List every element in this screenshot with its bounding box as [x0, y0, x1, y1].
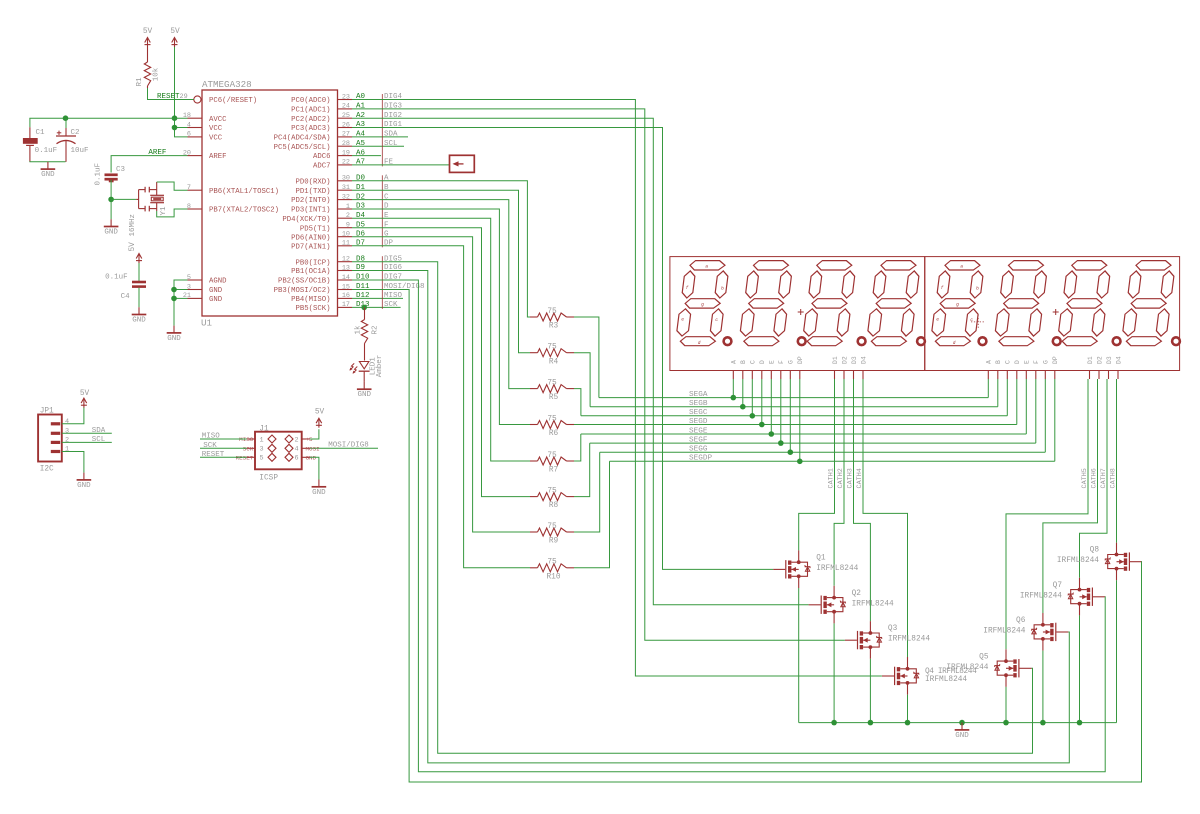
wire net DIG2: U1 A2 to Q2 gate [352, 118, 809, 605]
transistor Q3 IRFML8244 [845, 621, 930, 659]
junction dot GND bus [1003, 720, 1009, 726]
display DIS2 pin D2 stub [1096, 356, 1103, 379]
svg-text:4: 4 [295, 446, 299, 454]
svg-text:PD2(INT0): PD2(INT0) [291, 197, 330, 205]
svg-text:G: G [1043, 360, 1050, 364]
svg-text:75: 75 [547, 452, 557, 460]
U1 pin PD0(RXD) pin 30 / net D0 [295, 175, 389, 187]
wire net SEGD bus row [574, 418, 1017, 426]
svg-text:1k: 1k [355, 325, 363, 335]
svg-text:CATH7: CATH7 [1100, 468, 1108, 488]
display DIS2 digit 2 glyph [994, 261, 1049, 346]
svg-text:SCK: SCK [243, 446, 254, 453]
svg-text:D12: D12 [356, 292, 370, 300]
svg-text:75: 75 [547, 523, 557, 531]
svg-text:AVCC: AVCC [209, 116, 227, 124]
U1 pin PD3(INT1) pin 1 / net D3 [291, 203, 389, 215]
wire net CATH7: DIS2 D3 to Q7 drain [1080, 379, 1109, 578]
svg-text:5V: 5V [315, 409, 325, 417]
display DIS2 digit 3 glyph [1057, 261, 1112, 346]
svg-text:CATH2: CATH2 [837, 468, 845, 488]
svg-text:I2C: I2C [40, 466, 54, 474]
svg-text:PD3(INT1): PD3(INT1) [291, 207, 330, 215]
junction dot GND pin21 [171, 296, 177, 302]
svg-text:A: A [986, 360, 993, 364]
wire display DIS1 pin C to SEGC [751, 379, 753, 416]
wire net CATH2: DIS1 D2 to Q2 drain [834, 379, 845, 586]
U1 pin PD5(T1) pin 9 / net D5 [300, 221, 389, 233]
junction dot SEGDP/DIS1 [797, 459, 803, 465]
svg-text:Q5: Q5 [979, 653, 989, 661]
svg-text:Q7: Q7 [1053, 582, 1063, 590]
U1 pin PC2(ADC2) pin 25 / net A2 [291, 112, 402, 124]
svg-text:25: 25 [342, 112, 350, 120]
crystal Y1 16MHz resonator [129, 182, 168, 237]
svg-text:1: 1 [346, 203, 350, 211]
junction dot C3/resonator [108, 197, 114, 203]
wire net MISO (J1) [200, 433, 247, 441]
svg-text:VCC: VCC [209, 135, 223, 143]
display DIS2 decimal point 1 [979, 337, 987, 345]
svg-text:MOSI: MOSI [306, 446, 320, 453]
svg-text:16MHz: 16MHz [129, 214, 137, 237]
wire net D0 (A): U1 to R3 [352, 181, 530, 317]
U1 pin PD2(INT0) pin 32 / net D2 [291, 193, 389, 205]
wire net SEGC bus row [581, 409, 1007, 417]
svg-text:C2: C2 [71, 129, 80, 137]
junction dot 5V/AVCC [172, 115, 178, 121]
transistor Q5 IRFML8244 [946, 649, 1031, 687]
U1 pin PB1(OC1A) pin 13 / net D9 [291, 264, 402, 276]
ground GND (C1/C2) [41, 162, 56, 179]
svg-text:SCL: SCL [384, 140, 398, 148]
svg-text:PC4(ADC4/SDA): PC4(ADC4/SDA) [274, 135, 331, 143]
U1 pin PC6(/RESET) pin 29 [194, 96, 257, 105]
svg-text:5V: 5V [143, 28, 153, 36]
svg-text:+5: +5 [306, 436, 314, 443]
svg-text:R10: R10 [546, 573, 560, 581]
svg-text:IRFML8244: IRFML8244 [1057, 557, 1099, 565]
display DIS1 pin A stub [731, 360, 738, 379]
svg-text:31: 31 [342, 184, 350, 192]
wire net SEGA bus row [599, 391, 988, 399]
net-label xref line group A [381, 94, 383, 166]
wire net SEGDP bus row [610, 455, 1055, 463]
svg-text:D4: D4 [860, 356, 867, 364]
U1 pin PC5(ADC5/SCL) pin 28 / net A5 [274, 140, 404, 152]
svg-text:7: 7 [187, 184, 191, 192]
display DIS1 pin E stub [769, 360, 776, 379]
svg-text:27: 27 [342, 131, 350, 139]
svg-text:2: 2 [346, 212, 350, 220]
U1 pin PB6(XTAL1/TOSC1) pin 7 [187, 184, 279, 196]
junction dot SEGA/DIS1 [731, 395, 737, 401]
U1 pin PB2(SS/OC1B) pin 14 / net D10 [278, 274, 402, 286]
svg-text:SCK: SCK [384, 301, 398, 309]
svg-text:14: 14 [342, 274, 350, 282]
svg-text:ADC6: ADC6 [313, 153, 331, 161]
op-amp U1 ATMEGA328 chip body [201, 79, 338, 329]
U1 pin ADC7 pin 22 / net A7 [313, 159, 394, 171]
junction dot SEGB/DIS1 [740, 404, 746, 410]
wire net SDA [62, 427, 112, 435]
capacitor C2 10uF polarized [56, 118, 89, 162]
svg-text:6: 6 [295, 455, 299, 463]
wire net D4 (E): U1 to R7 [352, 218, 530, 461]
wire net CATH3: DIS1 D3 to Q3 drain [847, 379, 871, 621]
svg-text:18: 18 [183, 112, 191, 120]
display DIS1 digit 2 glyph [739, 261, 794, 346]
wire display DIS1 pin F to SEGF [780, 379, 782, 443]
svg-text:RESET: RESET [236, 455, 254, 462]
svg-text:GND: GND [357, 391, 371, 399]
ground GND (LED1) [357, 382, 372, 399]
svg-text:2: 2 [65, 437, 69, 445]
svg-text:IRFML8244: IRFML8244 [852, 600, 894, 608]
svg-text:GND: GND [209, 287, 223, 295]
svg-text:D4: D4 [1115, 356, 1122, 364]
svg-text:PD4(XCK/T0): PD4(XCK/T0) [282, 216, 330, 224]
svg-text:D3: D3 [1106, 356, 1113, 364]
wire net DIG1: U1 A3 to Q1 gate [352, 128, 773, 570]
wire display DIS2 pin E to SEGE [1025, 379, 1027, 434]
svg-text:SEGF: SEGF [689, 437, 708, 445]
transistor Q1 IRFML8244 [773, 550, 858, 588]
svg-text:MISO: MISO [202, 433, 221, 441]
svg-text:4: 4 [187, 121, 191, 129]
ground GND (bus) [955, 723, 970, 740]
svg-text:A4: A4 [356, 131, 366, 139]
svg-text:CATH3: CATH3 [847, 468, 855, 488]
svg-text:DP: DP [797, 356, 804, 364]
junction dot GND bus [959, 720, 965, 726]
svg-text:5V: 5V [170, 28, 180, 36]
svg-text:CATH8: CATH8 [1110, 468, 1118, 488]
svg-text:VCC: VCC [209, 125, 223, 133]
svg-text:GND: GND [77, 482, 91, 490]
svg-text:ATMEGA328: ATMEGA328 [202, 79, 252, 90]
resistor R2 1k [355, 307, 380, 360]
svg-text:Q2: Q2 [852, 590, 862, 598]
display DIS1 pin D stub [759, 360, 766, 379]
svg-text:4: 4 [65, 418, 69, 426]
svg-text:26: 26 [342, 121, 350, 129]
net-label xref line group D0-D7 [381, 175, 383, 247]
svg-text:D: D [759, 360, 766, 364]
svg-text:GND: GND [306, 455, 317, 462]
display DIS1 pin DP stub [797, 356, 804, 379]
svg-text:PB0(ICP): PB0(ICP) [295, 259, 330, 267]
transistor Q6 IRFML8244 [983, 613, 1068, 651]
svg-text:GND: GND [209, 296, 223, 304]
wire net DIG5: U1 to transistor gate (bottom route) [352, 262, 1033, 754]
svg-text:PB3(MOSI/OC2): PB3(MOSI/OC2) [274, 287, 331, 295]
svg-text:CATH6: CATH6 [1091, 468, 1099, 488]
svg-text:5: 5 [260, 455, 264, 463]
svg-text:3: 3 [260, 446, 264, 454]
wire R9 to SEG row [574, 452, 600, 532]
resistor R9 75 [530, 523, 574, 546]
svg-text:AREF: AREF [209, 153, 227, 161]
wire display DIS1 pin A to SEGA [732, 379, 734, 398]
wire net SCK (J1) [200, 442, 247, 450]
svg-text:PC2(ADC2): PC2(ADC2) [291, 116, 330, 124]
svg-text:IRFML8244: IRFML8244 [946, 664, 988, 672]
wire net D5 (F): U1 to R8 [352, 228, 530, 497]
svg-text:R7: R7 [549, 467, 559, 475]
svg-text:A7: A7 [356, 159, 365, 167]
wire JP1 pin1 to GND [62, 452, 84, 473]
svg-text:12: 12 [342, 256, 350, 264]
display DIS1 pin D3 stub [851, 356, 858, 379]
U1 pin AGND pin 5 [187, 274, 227, 286]
wire net FE: A7 to connector [352, 164, 450, 166]
display DIS1 pin G stub [788, 360, 795, 379]
wire J1 +5 to 5V [310, 429, 319, 439]
svg-text:0.1uF: 0.1uF [95, 163, 103, 186]
resistor R10 75 [530, 559, 574, 582]
U1 pin GND pin 21 [183, 292, 223, 304]
display DIS2 pin E stub [1024, 360, 1031, 379]
svg-text:FE: FE [384, 159, 394, 167]
ground GND (U1) [167, 326, 182, 343]
wire net D7 (DP): U1 to R10 [352, 246, 530, 568]
wire display DIS1 pin B to SEGB [742, 379, 744, 407]
svg-text:MOSI/DIG8: MOSI/DIG8 [328, 442, 369, 450]
wire R3 to SEG row [574, 317, 599, 398]
U1 pin PC1(ADC1) pin 24 / net A1 [291, 103, 402, 115]
svg-text:Q1: Q1 [816, 554, 826, 562]
resistor R8 75 [530, 487, 574, 510]
svg-text:3: 3 [65, 428, 69, 436]
svg-text:24: 24 [342, 103, 350, 111]
display DIS2 decimal point 2 [1053, 337, 1061, 345]
power 5V supply symbol (J1) [315, 409, 325, 428]
wire R5 to SEG row [574, 389, 581, 416]
display DIS1 pin F stub [778, 360, 785, 379]
svg-text:GND: GND [104, 229, 118, 237]
svg-text:10uF: 10uF [71, 147, 89, 155]
display DIS1 decimal point 1 [724, 337, 732, 345]
display DIS1 pin D1 stub [832, 356, 839, 379]
svg-text:CATH5: CATH5 [1081, 468, 1089, 488]
svg-text:5V: 5V [129, 242, 137, 252]
display DIS2 pin F stub [1033, 360, 1040, 379]
U1 pin PB7(XTAL2/TOSC2) pin 8 [187, 203, 279, 215]
svg-text:SEGB: SEGB [689, 400, 708, 408]
wire net SCL [62, 436, 112, 444]
svg-text:AREF: AREF [148, 149, 166, 157]
display DIS2 origin cross [971, 315, 985, 329]
resistor R3 75 [530, 308, 574, 331]
svg-text:SEGA: SEGA [689, 391, 708, 399]
wire display DIS1 pin D to SEGD [761, 379, 763, 425]
wire net D3 (D): U1 to R6 [352, 209, 530, 425]
svg-text:C1: C1 [36, 129, 46, 137]
svg-text:IRFML8244: IRFML8244 [983, 628, 1025, 636]
junction dot 5V/VCC [172, 125, 178, 131]
junction dot GND bus [1077, 720, 1083, 726]
svg-text:PB7(XTAL2/TOSC2): PB7(XTAL2/TOSC2) [209, 207, 279, 215]
svg-text:C: C [750, 360, 757, 364]
svg-text:2: 2 [295, 436, 299, 444]
svg-text:ICSP: ICSP [259, 475, 278, 483]
svg-text:D2: D2 [841, 356, 848, 364]
svg-text:GND: GND [955, 732, 969, 740]
svg-text:AGND: AGND [209, 278, 227, 286]
svg-text:SEGC: SEGC [689, 409, 708, 417]
svg-text:8: 8 [187, 203, 191, 211]
power 5V supply symbol (R1) [143, 28, 153, 47]
U1 pin PD7(AIN1) pin 11 / net D7 [291, 240, 393, 252]
svg-text:PD1(TXD): PD1(TXD) [295, 188, 330, 196]
svg-text:6: 6 [187, 131, 191, 139]
svg-text:SDA: SDA [384, 131, 398, 139]
display DIS2 digit 1 glyph [930, 261, 985, 346]
U1 pin AREF pin 20 [183, 149, 227, 161]
wire display DIS2 pin A to SEGA [987, 379, 989, 398]
svg-text:20: 20 [183, 149, 191, 157]
svg-text:PB5(SCK): PB5(SCK) [295, 305, 330, 313]
svg-text:Q3: Q3 [888, 625, 898, 633]
ground GND (C4) [132, 307, 147, 324]
junction dot D13/R2 [361, 305, 367, 311]
U1 pin PD4(XCK/T0) pin 2 / net D4 [282, 212, 389, 224]
wire C1/C2 ground rail [29, 161, 65, 163]
wire net AVCC rail [29, 117, 187, 119]
ground GND (J1) [312, 480, 327, 497]
display DIS1 pin B stub [740, 360, 747, 379]
display DIS2 digit 4 glyph [1121, 261, 1176, 346]
wire net RESET (J1) [200, 451, 247, 459]
U1 pin VCC pin 6 [187, 131, 223, 143]
wire net DIG6: U1 to transistor gate (bottom route) [352, 271, 1069, 763]
U1 pin ADC6 pin 19 / net A6 [313, 149, 381, 161]
svg-text:PD6(AIN0): PD6(AIN0) [291, 234, 330, 242]
display DIS1 decimal point 2 [798, 337, 806, 345]
U1 pin AVCC pin 18 [183, 112, 227, 124]
U1 pin VCC pin 4 [187, 121, 223, 133]
display DIS2 pin C stub [1005, 360, 1012, 379]
svg-text:U1: U1 [201, 318, 213, 329]
U1 pin PB4(MISO) pin 16 / net D12 [291, 292, 403, 304]
junction dot GND bus [905, 720, 911, 726]
wire net D2 (C): U1 to R5 [352, 200, 530, 389]
LED LED1 Amber [350, 355, 385, 382]
svg-text:PD5(T1): PD5(T1) [300, 225, 331, 233]
U1 pin PC3(ADC3) pin 26 / net A3 [291, 121, 402, 133]
svg-text:B: B [995, 360, 1002, 364]
svg-text:ADC7: ADC7 [313, 163, 331, 171]
display DIS2 decimal point 4 [1172, 337, 1180, 345]
power 5V supply symbol (C4) [129, 242, 142, 263]
svg-text:PC3(ADC3): PC3(ADC3) [291, 125, 330, 133]
junction dot GND bus [831, 720, 837, 726]
display DIS1 decimal point 4 [917, 337, 925, 345]
wire net CATH6: DIS2 D2 to Q6 drain [1043, 379, 1099, 613]
resistor R7 75 [530, 452, 574, 475]
svg-text:SCL: SCL [92, 436, 106, 444]
resistor R5 75 [530, 379, 574, 402]
U1 pin PC4(ADC4/SDA) pin 27 / net A4 [274, 131, 408, 143]
wire R7 to SEG row [574, 434, 581, 461]
svg-text:IRFML8244: IRFML8244 [1020, 592, 1062, 600]
display DIS2 4-digit 7-segment module body [925, 257, 1180, 371]
U1 pin PB0(ICP) pin 12 / net D8 [295, 255, 402, 267]
transistor Q2 IRFML8244 [809, 586, 894, 624]
svg-text:R4: R4 [549, 358, 559, 366]
power 5V supply symbol (JP1) [80, 390, 90, 408]
wire net CATH4: DIS1 D4 to Q4 drain [856, 379, 907, 657]
wire display DIS2 pin B to SEGB [997, 379, 999, 407]
transistor Q4 IRFML8244 [882, 657, 977, 695]
U1 pin PB3(MOSI/OC2) pin 15 / net D11 [274, 283, 425, 295]
U1 pin PB5(SCK) pin 17 / net D13 [295, 301, 400, 313]
wire display DIS2 pin DP to SEGDP [1054, 379, 1056, 461]
wire R8 to SEG row [574, 443, 590, 497]
svg-text:SEGDP: SEGDP [689, 455, 712, 463]
svg-text:29: 29 [180, 93, 188, 101]
svg-text:RESET: RESET [202, 451, 225, 459]
svg-text:CATH1: CATH1 [828, 468, 836, 488]
svg-text:A6: A6 [356, 149, 366, 157]
svg-text:GND: GND [132, 317, 146, 325]
svg-text:G: G [788, 360, 795, 364]
transistor Q8 IRFML8244 [1057, 543, 1142, 581]
power 5V supply symbol (VCC rail) [170, 28, 180, 47]
svg-text:28: 28 [342, 140, 350, 148]
wire net SEGF bus row [590, 437, 1036, 445]
svg-text:10k: 10k [153, 67, 161, 81]
svg-text:0.1uF: 0.1uF [105, 274, 128, 282]
svg-text:5: 5 [187, 274, 191, 282]
display DIS2 pin D1 stub [1087, 356, 1094, 379]
wire display DIS2 pin D to SEGD [1016, 379, 1018, 425]
wire JP1 pin4 to 5V [62, 407, 84, 424]
svg-text:R3: R3 [549, 323, 559, 331]
svg-text:R1: R1 [136, 77, 144, 87]
svg-text:PC0(ADC0): PC0(ADC0) [291, 97, 330, 105]
wire AGND/GND to ground [174, 280, 188, 326]
svg-text:R2: R2 [372, 325, 380, 334]
svg-text:R5: R5 [549, 394, 559, 402]
net-label xref line group D8-D13 [381, 256, 383, 309]
svg-text:GND: GND [312, 489, 326, 497]
wire display DIS1 pin DP to SEGDP [799, 379, 801, 461]
svg-text:21: 21 [183, 292, 191, 300]
ground GND (C3) [104, 219, 119, 236]
svg-text:CATH4: CATH4 [856, 468, 864, 488]
svg-text:D1: D1 [832, 356, 839, 364]
display DIS1 decimal point 3 [858, 337, 866, 345]
svg-text:JP1: JP1 [40, 408, 54, 416]
wire net D6 (G): U1 to R9 [352, 237, 530, 532]
svg-text:9: 9 [346, 222, 350, 230]
svg-text:Amber: Amber [376, 355, 384, 378]
display DIS1 digit 3 glyph [802, 261, 857, 346]
svg-text:MISO: MISO [239, 436, 254, 443]
svg-text:SDA: SDA [92, 427, 106, 435]
svg-text:PD7(AIN1): PD7(AIN1) [291, 243, 330, 251]
U1 pin GND pin 3 [187, 283, 223, 295]
svg-text:75: 75 [547, 487, 557, 495]
svg-text:75: 75 [547, 559, 557, 567]
display DIS2 pin DP stub [1052, 356, 1059, 379]
svg-text:D2: D2 [1096, 356, 1103, 364]
wire R10 to SEG row [574, 461, 610, 568]
svg-text:10: 10 [342, 231, 350, 239]
U1 pin PD6(AIN0) pin 10 / net D6 [291, 230, 389, 242]
